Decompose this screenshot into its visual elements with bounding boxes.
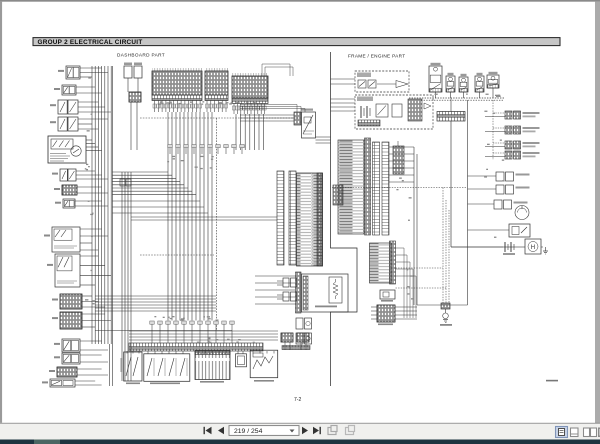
single page mode button (active) xyxy=(556,427,568,438)
inline connector stubs row A xyxy=(168,145,244,155)
taskbar highlight xyxy=(34,440,60,444)
wire: grid to right vertical xyxy=(417,304,468,306)
viewer right border strip xyxy=(595,2,600,424)
switch CS-7 xyxy=(54,353,80,364)
relay RY-3 xyxy=(52,169,76,181)
dashed wire horizontal lower xyxy=(140,254,214,256)
wires from switch CS-2 to bus xyxy=(78,102,111,112)
wire labels engine row xyxy=(435,94,501,98)
battery B-1 xyxy=(503,242,517,255)
wires from CN-11 down xyxy=(131,102,137,150)
drawing number xyxy=(546,380,558,382)
dashed box: battery and fusible link assy xyxy=(355,95,433,129)
wires from relay RY-5 to bus xyxy=(80,256,111,285)
wire loop above CN-3 xyxy=(262,64,293,76)
wire: stub row top rail xyxy=(95,330,232,332)
svg-text:219 / 254: 219 / 254 xyxy=(234,428,263,435)
head lamp relay P-3 xyxy=(485,141,540,149)
connector grid GB-1 xyxy=(371,305,417,325)
next page button xyxy=(302,427,308,434)
diode unit D-1 xyxy=(124,63,142,79)
wires from diode D-2 to bus xyxy=(77,369,108,375)
wires from flasher unit F-1 to bus xyxy=(80,229,108,250)
frame connector label list CN-45 xyxy=(370,241,396,284)
wires from divider to relay box xyxy=(331,79,356,84)
connector bank CN-3 xyxy=(232,73,268,104)
inline connector stubs row B xyxy=(150,321,234,331)
switch CS-2 xyxy=(50,100,78,114)
fuse box CN-1 xyxy=(152,68,202,101)
wire bundle: CN-3 drop verticals xyxy=(236,114,264,150)
sensor E-4 xyxy=(475,73,484,98)
connector bank CN-2 xyxy=(205,68,228,101)
relay RY-2 xyxy=(54,85,76,95)
wire: fuse strip down xyxy=(450,121,452,247)
dotted main bus engine xyxy=(409,98,504,100)
pin labels central verticals xyxy=(167,156,214,169)
fuse strip comb xyxy=(437,98,465,121)
wires from relay RY-1 to bus xyxy=(80,68,108,77)
wire drops from connector bank CN-3 xyxy=(233,104,267,115)
wires from resistor R-4 to bus xyxy=(75,381,102,385)
glow relay E-2 xyxy=(446,73,455,98)
work lamp Q-2 xyxy=(468,185,530,194)
dashed box: relay box assy xyxy=(355,71,409,92)
wires into motor assembly xyxy=(255,276,296,304)
wire drops from fuse box CN-1 xyxy=(153,101,202,113)
flasher unit F-1 xyxy=(44,227,80,252)
switch CS-3 xyxy=(50,117,78,131)
diode D-2 xyxy=(49,367,77,377)
connector CN-15 xyxy=(52,312,82,329)
wire: long right vertical xyxy=(467,100,469,305)
relay pair RP-2 xyxy=(277,292,297,301)
buzzer BZ-1 xyxy=(294,109,316,139)
ground G-1 xyxy=(541,247,548,254)
wire bundle: bus to center horizontals xyxy=(112,172,208,213)
wires from ignition switch to bus xyxy=(86,140,102,151)
horn HO-1 xyxy=(440,303,452,326)
toolbar separator xyxy=(0,423,600,424)
wires from switch CS-3 to bus xyxy=(78,119,108,129)
work lamp Q-1 xyxy=(468,172,530,181)
viewer top border xyxy=(0,0,600,2)
wire labels bottom blocks xyxy=(197,338,255,344)
fan motor circle xyxy=(515,206,529,220)
wires to buzzer xyxy=(240,105,305,122)
connector CN-20 on bus xyxy=(120,179,131,186)
frame aux connector xyxy=(393,141,404,174)
wire bundle: lower-left horizontals xyxy=(95,296,216,311)
wiper switch block SW-1 xyxy=(121,352,143,384)
connector cluster CN-30 xyxy=(281,333,310,350)
resistor block R-9 xyxy=(236,354,247,367)
dashed wire vertical center xyxy=(216,118,218,330)
relay pair RP-1 xyxy=(277,278,297,287)
taskbar strip xyxy=(0,440,600,444)
main connector label box xyxy=(297,173,323,266)
previous view button (disabled) xyxy=(328,426,337,435)
speaker SP-1 xyxy=(296,318,312,329)
wire bundle: central verticals xyxy=(168,112,212,321)
wire bundle: horizontals to main connector xyxy=(131,217,277,220)
wires from diode unit down xyxy=(128,78,138,92)
sensor E-3 xyxy=(459,74,468,98)
connector CN-11 xyxy=(129,92,141,102)
wires from switch CS-7 to bus xyxy=(80,355,108,362)
wires from list to verticals xyxy=(389,147,417,305)
wiper motor block MO-1 xyxy=(250,350,278,381)
continuous page mode button xyxy=(571,428,579,437)
lamp relay P-1 xyxy=(485,111,540,119)
small comb near divider xyxy=(333,185,343,205)
wires buzzer to frame section xyxy=(316,137,331,143)
wires from switch CS-6 to bus xyxy=(80,341,108,350)
switch CS-6 xyxy=(54,339,80,352)
svg-text:FRAME / ENGINE PART: FRAME / ENGINE PART xyxy=(348,54,405,59)
svg-text:DASHBOARD PART: DASHBOARD PART xyxy=(117,53,165,58)
relay RY-5 xyxy=(47,254,80,287)
page number field 219 / 254 xyxy=(229,426,299,436)
main harness connector comb B xyxy=(289,171,296,265)
combination meter block M-1 xyxy=(195,351,230,383)
section divider line between dashboard and frame parts xyxy=(331,52,358,386)
alternator E-5 xyxy=(487,72,499,98)
wire bundle: bottom horizontals xyxy=(129,331,278,340)
resistor R-1 xyxy=(55,199,75,208)
dashed wire across frame xyxy=(332,187,467,189)
light switch block SW-2 xyxy=(144,354,190,384)
next view button (disabled) xyxy=(346,426,355,435)
wire drops stub row to comb xyxy=(152,331,232,344)
starter motor H-1 xyxy=(525,239,541,254)
wires from divider to battery box xyxy=(331,99,356,111)
wires from connector CN-12 to bus xyxy=(77,187,108,193)
wires from connector CN-15 to bus xyxy=(82,314,111,327)
connector CN-14 xyxy=(52,294,82,309)
wire drops to bottom blocks xyxy=(127,351,274,354)
last page button xyxy=(313,427,321,434)
wire bundle: left main vertical bus xyxy=(92,66,112,386)
partial icon right edge xyxy=(599,428,600,437)
viewer left border xyxy=(0,2,2,423)
resistor R-4 xyxy=(42,379,75,387)
wires from resistor R-1 to bus xyxy=(75,201,108,206)
connector CN-12 xyxy=(54,185,77,195)
svg-text:H: H xyxy=(531,245,535,251)
previous page button xyxy=(218,427,224,434)
svg-text:7-2: 7-2 xyxy=(294,397,301,403)
wires from CN-45 xyxy=(396,248,417,318)
lamp relay P-2 xyxy=(485,126,540,134)
wire labels left bus xyxy=(85,77,95,304)
ignition switch block xyxy=(48,136,86,163)
first page button xyxy=(204,427,212,434)
wire: right vertical feed xyxy=(492,100,494,160)
relay RY-1 xyxy=(58,66,80,79)
svg-text:GROUP 2 ELECTRICAL CIRCUIT: GROUP 2 ELECTRICAL CIRCUIT xyxy=(38,39,143,46)
wiper motor assembly block xyxy=(302,274,349,312)
relay R-20 xyxy=(380,290,395,302)
bottom connector comb strip xyxy=(129,343,263,351)
wire: battery row xyxy=(451,246,525,248)
wire labels frame lists xyxy=(396,178,414,300)
pin labels near stub row B xyxy=(154,316,218,321)
speaker SP-2 xyxy=(296,333,312,344)
toolbar background xyxy=(0,424,600,440)
wire bundle: inner left verticals xyxy=(122,172,131,381)
frame connector comb C-1 xyxy=(373,142,380,235)
fan unit Q-3 xyxy=(468,200,528,209)
fuel sender unit Q-4 xyxy=(468,224,531,237)
wire drops from connector bank CN-2 xyxy=(206,101,228,113)
two page mode button xyxy=(584,428,597,437)
wires from relay RY-3 to bus xyxy=(76,171,108,179)
frame connector comb C-2 xyxy=(382,142,389,235)
dashed wires to horn xyxy=(396,188,450,304)
header bar GROUP 2 ELECTRICAL CIRCUIT xyxy=(33,38,560,47)
wire labels right column xyxy=(484,111,505,238)
wires from connector CN-14 to bus xyxy=(82,296,105,307)
starter relay E-1 xyxy=(429,63,442,98)
pin strip left of motor block xyxy=(296,272,302,313)
wires from relay RY-2 to bus xyxy=(76,87,102,93)
horn relay P-4 xyxy=(485,151,540,159)
frame connector label list CN-40 xyxy=(338,138,371,235)
main harness connector comb A xyxy=(277,171,284,265)
pin labels near fuse box drops xyxy=(158,101,255,105)
dashed wire horizontal upper xyxy=(140,117,300,119)
